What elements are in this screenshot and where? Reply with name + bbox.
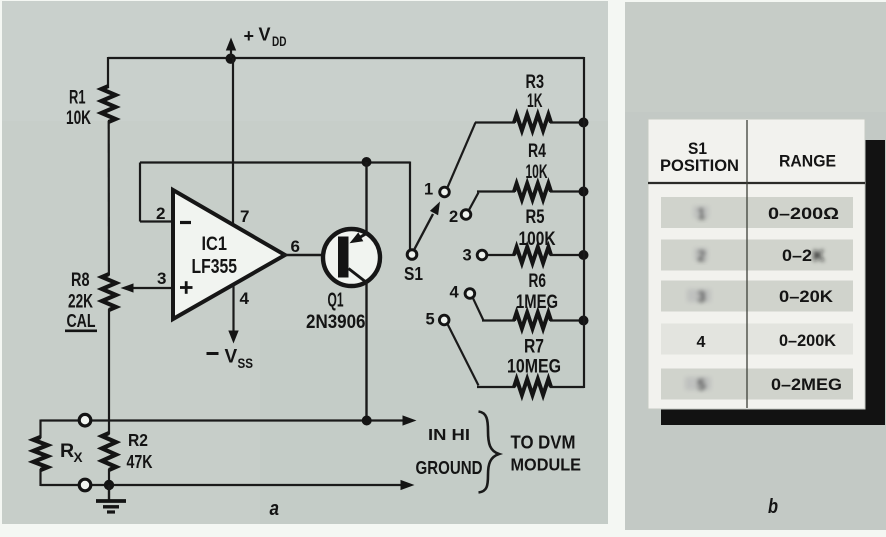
svg-text:1K: 1K	[527, 91, 543, 112]
ground symbol	[96, 485, 126, 512]
table header rule	[648, 182, 865, 184]
header S1 POSITION	[660, 139, 739, 175]
svg-text:2N3906: 2N3906	[306, 311, 366, 333]
right table panel background	[625, 2, 886, 530]
label IC1 LF355	[192, 233, 238, 278]
terminal: GROUND test point	[79, 479, 91, 491]
left schematic panel background	[2, 1, 608, 524]
label R3 1K	[526, 71, 545, 112]
wire: VDD to op-amp pin 7	[232, 58, 234, 225]
svg-text:RANGE: RANGE	[779, 152, 836, 171]
resistor Rx	[34, 437, 48, 470]
row 2 position blurred 2	[694, 248, 708, 265]
potentiometer R8	[102, 274, 116, 310]
svg-text:IC1: IC1	[202, 233, 228, 255]
wire: R3 to bus	[550, 121, 584, 123]
resistor R4	[514, 184, 551, 200]
wire: Rx left leg bottom	[39, 469, 41, 486]
resistor R1	[102, 86, 116, 122]
table drop shadow	[661, 140, 885, 425]
svg-text:5: 5	[426, 311, 435, 329]
svg-text:LF355: LF355	[192, 256, 238, 278]
label Rx	[60, 440, 83, 465]
wire: R2 bottom to ground junction	[108, 469, 110, 486]
svg-text:R3: R3	[526, 71, 545, 93]
node: R6 bus junction	[579, 316, 589, 326]
svg-text:R7: R7	[524, 336, 544, 358]
svg-text:47K: 47K	[127, 451, 153, 472]
svg-text:IN HI: IN HI	[428, 427, 470, 444]
svg-text:2: 2	[449, 208, 458, 226]
svg-text:R8: R8	[71, 269, 90, 291]
svg-text:1: 1	[697, 206, 706, 223]
svg-text:SS: SS	[238, 356, 254, 371]
wire: +VDD top rail	[108, 57, 584, 59]
inverting input minus sign	[180, 221, 191, 224]
wire: contact 4 to R6	[473, 298, 515, 321]
Q1 base bar	[338, 237, 349, 278]
svg-text:S1: S1	[404, 264, 423, 284]
svg-text:1: 1	[424, 181, 433, 199]
wire: left rail top to R1	[107, 57, 109, 87]
wire: Rx left leg top	[39, 420, 41, 439]
wire: R7 to bus corner	[550, 386, 584, 388]
svg-text:3: 3	[697, 289, 706, 306]
resistor R2	[102, 433, 116, 470]
wire: contact 5 to R7	[448, 325, 515, 387]
svg-text:R1: R1	[69, 88, 86, 109]
label R6 1MEG	[516, 270, 558, 313]
label -VSS	[207, 347, 254, 372]
svg-text:5: 5	[697, 377, 706, 394]
label +VDD	[244, 25, 287, 50]
table column divider	[746, 120, 748, 408]
svg-text:a: a	[270, 498, 280, 520]
node: collector IN HI junction	[362, 416, 372, 426]
label R2 47K	[127, 430, 153, 472]
svg-text:6: 6	[291, 237, 300, 256]
svg-text:MODULE: MODULE	[511, 455, 582, 475]
svg-text:X: X	[74, 450, 83, 465]
switch contact 4	[465, 289, 475, 299]
non-inverting input plus sign	[180, 281, 193, 294]
transistor Q1 circle	[323, 229, 380, 286]
svg-text:0–2MEG: 0–2MEG	[771, 375, 842, 394]
row 4 band	[661, 324, 853, 355]
terminal: IN HI test point	[79, 414, 91, 426]
node: R3 bus junction	[579, 118, 589, 128]
svg-text:R5: R5	[526, 206, 545, 228]
svg-text:0–20K: 0–20K	[779, 287, 834, 306]
row 1 band	[661, 197, 853, 228]
wire: collector down to IN HI junction	[365, 281, 367, 421]
resistor R3	[514, 115, 551, 131]
svg-text:10MEG: 10MEG	[507, 356, 561, 378]
row 5 position blurred 5	[685, 377, 711, 394]
wire: left rail R8 to R2	[108, 309, 110, 434]
table card	[648, 119, 865, 409]
switch contact 2	[461, 210, 471, 220]
S1 wiper arm arrow	[415, 202, 441, 250]
label R5 100K	[519, 206, 556, 250]
wire: R5 to bus	[550, 254, 584, 256]
svg-text:0–200Ω: 0–200Ω	[768, 204, 839, 223]
switch contact 5	[439, 315, 449, 325]
node: +VDD junction	[226, 54, 236, 64]
power symbol -VSS arrow	[228, 284, 238, 344]
label R4 10K	[526, 140, 548, 183]
node: R5 bus junction	[579, 250, 589, 260]
brace to DVM module	[479, 412, 500, 493]
wire: emitter up to feedback junction	[365, 162, 367, 235]
row 3 position blurred 3	[687, 289, 711, 306]
svg-text:R: R	[60, 440, 74, 462]
node: R4 bus junction	[579, 187, 589, 197]
svg-text:4: 4	[450, 284, 460, 302]
svg-text:1MEG: 1MEG	[516, 291, 558, 313]
svg-text:K: K	[813, 248, 825, 265]
node: emitter feedback junction	[362, 157, 372, 167]
R8 wiper arrow from pin 3	[121, 283, 174, 292]
wire: GROUND line with arrow	[41, 480, 415, 490]
label Q1 2N3906	[306, 290, 366, 334]
feedback wire pin2 loop	[140, 163, 410, 222]
row 3 band	[661, 281, 853, 312]
svg-text:3: 3	[463, 247, 472, 265]
svg-text:V: V	[259, 25, 271, 45]
svg-text:10K: 10K	[66, 107, 91, 129]
svg-text:100K: 100K	[519, 228, 556, 250]
resistor R7	[514, 379, 551, 395]
svg-text:2: 2	[156, 204, 165, 223]
svg-text:POSITION: POSITION	[660, 156, 739, 175]
svg-text:7: 7	[240, 207, 249, 226]
row 2 range 0-2K	[782, 246, 825, 265]
svg-text:DD: DD	[272, 34, 287, 49]
svg-text:V: V	[225, 347, 238, 368]
svg-text:TO DVM: TO DVM	[511, 433, 576, 453]
switch contact 1	[440, 187, 450, 197]
row 2 band	[661, 240, 853, 271]
svg-text:R2: R2	[128, 430, 148, 450]
svg-text:10K: 10K	[526, 162, 548, 183]
wire: left rail R1 to R8	[108, 121, 110, 275]
Q1 collector	[349, 269, 367, 283]
node: R2 ground junction	[104, 480, 114, 490]
row 1 position blurred 1	[693, 206, 709, 223]
label CAL underlined	[65, 310, 97, 331]
power symbol +VDD arrow	[226, 38, 236, 59]
svg-text:b: b	[768, 496, 778, 518]
svg-text:CAL: CAL	[67, 310, 96, 331]
resistor R5	[514, 247, 551, 263]
svg-text:Q1: Q1	[328, 290, 344, 312]
label R7 10MEG	[507, 336, 561, 378]
svg-text:4: 4	[697, 334, 706, 351]
svg-text:GROUND: GROUND	[416, 457, 483, 478]
svg-text:2: 2	[697, 248, 706, 265]
svg-text:0–200K: 0–200K	[779, 331, 837, 350]
svg-text:3: 3	[157, 269, 166, 288]
wire: op-amp output pin 6 to Q1 base	[283, 254, 339, 256]
wire: contact 3 to R5	[488, 254, 515, 256]
wire: R6 to bus	[550, 319, 584, 321]
svg-text:0–2: 0–2	[782, 246, 812, 265]
wire: R4 to bus	[550, 190, 584, 192]
switch contact 3	[477, 250, 487, 260]
wire: IN HI line with arrow	[41, 415, 417, 425]
svg-text:R6: R6	[529, 270, 547, 292]
wire: right bus vertical	[583, 57, 585, 388]
wire: contact 1 to R3	[447, 123, 515, 188]
svg-text:R4: R4	[528, 140, 546, 162]
row 5 band	[661, 369, 853, 400]
svg-text:4: 4	[240, 289, 250, 308]
resistor R6	[514, 313, 551, 329]
Q1 emitter arrow	[350, 232, 367, 243]
switch S1 pole	[407, 250, 417, 260]
svg-text:+: +	[244, 26, 255, 46]
label R1 10K	[66, 88, 91, 130]
label R8 22K	[68, 269, 93, 313]
wire: feedback corner down to S1 pole	[409, 162, 411, 251]
op-amp U1 triangle	[173, 190, 285, 319]
wire: contact 2 to R4	[469, 192, 515, 211]
